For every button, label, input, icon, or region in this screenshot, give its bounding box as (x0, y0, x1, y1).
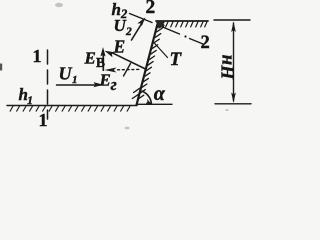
svg-text:U: U (59, 64, 73, 84)
svg-text:2: 2 (201, 33, 210, 53)
svg-text:α: α (154, 83, 166, 105)
svg-text:B: B (96, 55, 105, 70)
svg-text:1: 1 (39, 110, 48, 130)
svg-text:E: E (84, 49, 96, 68)
svg-text:1: 1 (27, 93, 33, 107)
svg-text:U: U (114, 16, 127, 35)
svg-text:г: г (111, 75, 117, 94)
svg-text:E: E (113, 36, 126, 56)
svg-text:1: 1 (72, 74, 78, 86)
svg-text:2: 2 (125, 26, 132, 38)
svg-text:T: T (170, 49, 183, 70)
svg-text:2: 2 (146, 0, 156, 18)
svg-text:н: н (216, 54, 237, 65)
svg-text:1: 1 (33, 46, 42, 66)
svg-text:H: H (218, 65, 238, 81)
svg-text:E: E (99, 71, 111, 90)
